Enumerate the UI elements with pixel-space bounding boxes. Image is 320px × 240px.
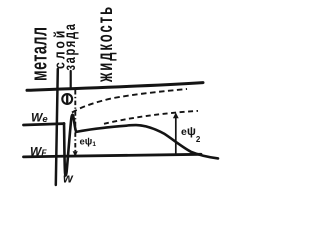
potential energy curve (well, spike, hump) bbox=[64, 115, 218, 176]
circled charge symbol bbox=[62, 94, 72, 104]
metal/liquid interface vertical line bbox=[56, 69, 58, 185]
svg-text:w: w bbox=[63, 172, 74, 186]
We level line bbox=[24, 124, 65, 125]
svg-text:металл: металл bbox=[26, 26, 51, 81]
WF (Fermi) level line bbox=[24, 154, 202, 157]
svg-text:заряда: заряда bbox=[61, 22, 78, 70]
upper dashed curve bbox=[72, 89, 187, 113]
top vacuum level line bbox=[27, 83, 203, 91]
e-psi-1 arrowhead bbox=[73, 151, 78, 156]
e-psi-2 measure arrow bbox=[173, 113, 179, 156]
svg-text:жидкость: жидкость bbox=[93, 5, 117, 83]
lower dashed curve bbox=[104, 111, 198, 124]
charge layer right tick bbox=[70, 71, 72, 89]
dash-dot layer boundary bbox=[74, 90, 76, 157]
